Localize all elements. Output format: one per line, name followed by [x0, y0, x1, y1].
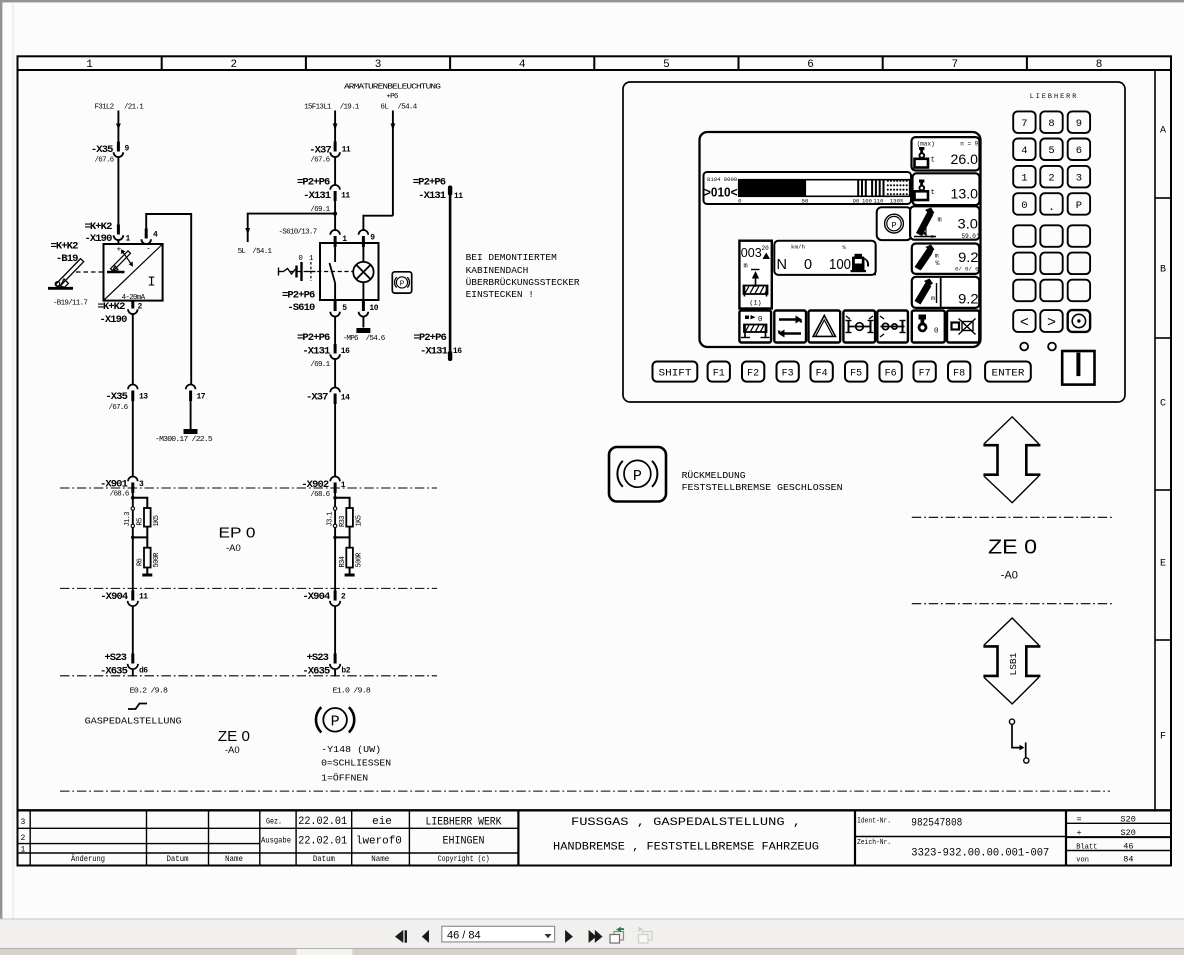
socket arc -X901:3 [128, 477, 138, 482]
LED 2 [1048, 343, 1056, 351]
first page button icon [395, 930, 407, 943]
blank key r5c1 [1013, 225, 1035, 247]
svg-text:-A0: -A0 [225, 745, 240, 756]
col line rev numbers [29, 810, 31, 865]
socket arc -X37:14 [330, 387, 340, 392]
jumper bottom pin blob [448, 351, 452, 361]
svg-text:1: 1 [341, 481, 346, 490]
hoist up icon [744, 271, 768, 297]
svg-text:Ident-Nr.: Ident-Nr. [857, 818, 891, 826]
parking brake valve symbol -Y148 [316, 707, 354, 732]
svg-text:A: A [1160, 126, 1166, 137]
LED 1 [1020, 343, 1028, 351]
pin numbers chain2 [341, 145, 463, 675]
svg-text:16: 16 [341, 347, 350, 356]
svg-text:=P2+P6: =P2+P6 [297, 177, 330, 189]
svg-text:-M300.17 /22.5: -M300.17 /22.5 [155, 436, 213, 444]
svg-text:F8: F8 [953, 368, 965, 379]
svg-text:EP 0: EP 0 [219, 525, 256, 542]
pin bar -X635:d6 [131, 654, 134, 664]
page number input box [442, 926, 555, 942]
svg-text:5L: 5L [238, 248, 247, 256]
fuel pump icon [851, 254, 870, 272]
col line gez/datum2 [295, 810, 297, 865]
column tick 3/4 [449, 56, 451, 70]
wire -X635:d6 tail [132, 670, 134, 677]
svg-text:Name: Name [371, 855, 389, 864]
ENTER key [985, 362, 1031, 382]
F2 key [742, 362, 764, 382]
svg-text:-X131: -X131 [303, 190, 331, 202]
taskbar strip right [352, 948, 1184, 955]
svg-text:Datum: Datum [313, 855, 335, 864]
svg-text:ARMATURENBELEUCHTUNG: ARMATURENBELEUCHTUNG [344, 84, 442, 92]
key 3 [1068, 166, 1090, 188]
svg-text:J3.1: J3.1 [327, 512, 335, 527]
junction circle J3.1 top [333, 507, 336, 510]
row letters [1160, 126, 1166, 743]
svg-text:%: % [842, 244, 846, 251]
resistor R6 500R [144, 548, 151, 568]
svg-text:+P6: +P6 [386, 93, 399, 101]
svg-text:F5: F5 [850, 368, 862, 379]
svg-text:3: 3 [375, 59, 382, 71]
svg-text:=P2+P6: =P2+P6 [413, 177, 446, 189]
ident row line [855, 836, 1066, 838]
svg-text:%: % [936, 260, 940, 267]
value box 2: load 13.0 t [913, 173, 980, 205]
svg-text:1: 1 [342, 235, 347, 244]
resistor R5 to mid wire [146, 527, 148, 538]
wire pin17 to ground [190, 401, 192, 429]
svg-text:0: 0 [758, 316, 763, 324]
svg-text:-X902: -X902 [301, 479, 329, 491]
gauge scale labels [738, 198, 904, 205]
svg-text:(1): (1) [749, 300, 761, 308]
col line datum/name [208, 810, 210, 865]
transducer box B19 [104, 244, 163, 301]
gauge bar outline [739, 180, 910, 197]
svg-text:500R: 500R [153, 552, 161, 568]
svg-text:t: t [931, 157, 936, 165]
window border top [0, 0, 1184, 2]
svg-text:=K+K2: =K+K2 [97, 301, 125, 313]
svg-text:LSB1: LSB1 [1008, 652, 1019, 675]
dash-dot boundary EP0 top [60, 487, 437, 489]
svg-text:=P2+P6: =P2+P6 [282, 290, 315, 302]
svg-text:2: 2 [1048, 173, 1054, 185]
svg-text:3: 3 [21, 818, 26, 827]
col line datum2/name2 [351, 810, 353, 865]
next page button icon [565, 930, 573, 943]
svg-text:1=ÖFFNEN: 1=ÖFFNEN [321, 772, 368, 783]
socket arc -X131:16 [330, 354, 340, 359]
socket arc S610 pin9 [359, 230, 369, 235]
svg-text:<: < [1020, 315, 1029, 332]
svg-text:ÜBERBRÜCKUNGSSTECKER: ÜBERBRÜCKUNGSSTECKER [466, 277, 580, 288]
wire -X37:14 to -X902:1 [334, 404, 336, 477]
pin bar -X35:13 [131, 391, 134, 402]
svg-text:S20: S20 [1121, 828, 1136, 838]
svg-text:982547808: 982547808 [911, 818, 962, 830]
previous page button icon [422, 930, 429, 943]
svg-text:9: 9 [125, 145, 130, 154]
resistor branch top jog chain2 [335, 498, 350, 508]
key 7 [1013, 111, 1035, 132]
svg-text:5: 5 [342, 304, 347, 313]
socket arc -X902:1 [330, 477, 340, 482]
svg-text:11: 11 [454, 192, 463, 201]
svg-text:/68.6: /68.6 [310, 491, 330, 499]
svg-text:1: 1 [86, 59, 93, 71]
key P [1068, 193, 1090, 215]
svg-text:>010<: >010< [704, 184, 738, 199]
svg-text:lwerof0: lwerof0 [356, 835, 402, 847]
svg-text:10: 10 [369, 304, 378, 313]
socket arc S610 pin10 [359, 312, 369, 317]
svg-text:50: 50 [802, 198, 809, 205]
svg-text:-X35: -X35 [105, 391, 127, 403]
svg-text:P: P [1076, 200, 1082, 212]
load bar gauge box [704, 172, 912, 205]
pin bar -X904:11 [131, 591, 134, 601]
svg-text:1: 1 [126, 235, 131, 244]
socket arc -X190:1 [114, 235, 124, 240]
svg-text:2: 2 [21, 834, 26, 843]
svg-text:F2: F2 [747, 368, 759, 379]
blank key r5c3 [1068, 225, 1090, 247]
key 6 [1068, 139, 1090, 161]
svg-text:-S610/13.7: -S610/13.7 [279, 228, 317, 236]
socket arc pin 4 [141, 239, 151, 244]
svg-text:-X190: -X190 [99, 314, 127, 326]
svg-text:GASPEDALSTELLUNG: GASPEDALSTELLUNG [85, 716, 182, 727]
svg-text:-X131: -X131 [418, 190, 446, 202]
lamp cross stroke 1 [356, 265, 370, 279]
ground bar -MP6 [356, 328, 370, 333]
dashed actuator line [290, 271, 353, 273]
select key circle dot [1072, 314, 1085, 327]
svg-text:/19.1: /19.1 [340, 104, 360, 112]
svg-text:d6: d6 [139, 667, 148, 676]
svg-text:0: 0 [1021, 200, 1027, 212]
svg-text:8: 8 [1048, 118, 1054, 130]
svg-text:=P2+P6: =P2+P6 [413, 332, 446, 344]
svg-text:Gez.: Gez. [266, 818, 282, 827]
svg-text:13: 13 [139, 393, 148, 402]
socket arc -X635:d6 [128, 664, 138, 669]
gauge dotted zone [887, 180, 911, 195]
column tick 6/7 [882, 56, 884, 70]
column tick 5/6 [738, 56, 740, 70]
svg-text:F6: F6 [885, 368, 897, 379]
taskbar strip left [0, 948, 297, 955]
svg-text:-MP6: -MP6 [343, 335, 359, 343]
double arrow upper [983, 417, 1040, 503]
display screen bezel [700, 132, 981, 347]
key 0 [1013, 193, 1035, 215]
svg-text:LIEBHERR: LIEBHERR [1030, 93, 1079, 101]
junction dot top chain2 [333, 496, 337, 500]
bei demontiertem note [466, 252, 580, 300]
svg-text:F4: F4 [816, 368, 828, 379]
dash-dot boundary ZE top [912, 516, 1113, 518]
svg-text:KABINENDACH: KABINENDACH [466, 265, 529, 276]
svg-text:F: F [1160, 732, 1166, 743]
pin bar 4 [145, 229, 148, 239]
svg-text:6: 6 [1076, 145, 1082, 157]
svg-text:9: 9 [1076, 118, 1082, 130]
svg-text:.: . [1048, 202, 1054, 214]
svg-text:1K5: 1K5 [153, 515, 161, 526]
pin bar -X635:b2 [334, 654, 337, 664]
F3 key [777, 362, 799, 382]
svg-text:>: > [1047, 315, 1056, 332]
pin bar -X37:11 [334, 142, 337, 152]
counterweight 003 box [739, 241, 771, 309]
svg-text:4: 4 [519, 59, 526, 71]
svg-text:/54.4: /54.4 [398, 104, 418, 112]
branch junction line mid [133, 537, 148, 547]
key 4 [1013, 139, 1035, 161]
hook block icon 1 [915, 147, 929, 168]
parking brake P screen button [877, 207, 912, 240]
dash-dot boundary EP0 bottom [60, 587, 437, 589]
key 5 [1040, 139, 1062, 161]
wire -X901:3 through resistors to -X904:11 [132, 493, 134, 601]
svg-text:=K+K2: =K+K2 [84, 221, 112, 233]
svg-text:46 / 84: 46 / 84 [447, 929, 481, 941]
svg-text:-B19: -B19 [56, 253, 78, 265]
wire pin10 to MP6 ground [362, 317, 364, 328]
dash-dot boundary bottom long [60, 790, 1110, 792]
manual actuator symbol [279, 262, 316, 281]
svg-text:/54.1: /54.1 [252, 248, 272, 256]
resistor branch top jog [133, 498, 148, 508]
svg-text:Copyright (c): Copyright (c) [438, 855, 490, 864]
svg-text:0=SCHLIESSEN: 0=SCHLIESSEN [321, 758, 391, 769]
svg-text:FESTSTELLBREMSE GESCHLOSSEN: FESTSTELLBREMSE GESCHLOSSEN [682, 482, 843, 493]
taskbar strip gap [297, 948, 353, 955]
pedal symbol inside box [107, 249, 133, 272]
panel housing [623, 82, 1125, 402]
pin bar -X131:16 [334, 344, 337, 354]
row tick A/B [1155, 197, 1171, 199]
svg-text:n = 9: n = 9 [960, 140, 978, 147]
svg-text:15F13L1: 15F13L1 [304, 104, 332, 112]
dashed link pedal to box [76, 271, 106, 273]
icon: outrigger state [739, 311, 771, 343]
pin bar S610 pin1 [334, 236, 337, 247]
blank key r7c2 [1040, 280, 1062, 302]
svg-text:-B19/11.7: -B19/11.7 [53, 300, 87, 308]
svg-text:EHINGEN: EHINGEN [443, 835, 485, 847]
svg-text:/69.1: /69.1 [310, 206, 330, 214]
svg-text:P: P [633, 468, 642, 485]
resistor R34 500R [346, 548, 353, 568]
col line aenderung/datum [146, 810, 148, 865]
key 8 [1040, 111, 1062, 132]
svg-text:m: m [744, 263, 748, 271]
svg-text:110: 110 [873, 198, 884, 205]
LSB switch contact symbol [1009, 719, 1029, 763]
pin bar 17 [189, 391, 192, 402]
junction circle J3.1 bottom [333, 524, 336, 527]
key 1 [1013, 166, 1035, 188]
svg-text:11: 11 [139, 592, 148, 601]
svg-text:R33: R33 [339, 516, 347, 527]
svg-text:11: 11 [341, 191, 350, 200]
socket arc pin 17 [186, 385, 196, 390]
pin bar -X37:14 [334, 394, 337, 405]
chain2 labels [238, 84, 442, 696]
resistor branch bottom end chain2 [349, 568, 351, 575]
column tick 1/2 [161, 56, 163, 70]
icon: swap arrows [774, 311, 806, 343]
wire -X35:13 to -X901:3 [132, 401, 134, 477]
svg-text:/21.1: /21.1 [124, 104, 144, 112]
wire -X131:11 to junction [334, 201, 336, 214]
svg-text:R34: R34 [339, 556, 347, 567]
rueckmeldung P-button symbol [609, 447, 666, 502]
key 9 [1068, 111, 1090, 132]
svg-text:SHIFT: SHIFT [659, 368, 692, 379]
icon: warning triangle [809, 311, 841, 343]
F4 key [811, 362, 833, 382]
wire pin5 down to -X131:16 [334, 317, 336, 354]
svg-text:/67.6: /67.6 [94, 157, 114, 165]
svg-text:26.0: 26.0 [951, 152, 979, 167]
resistor R5 1K5 [144, 508, 151, 527]
socket arc -X190:2 [128, 309, 138, 314]
svg-text:/68.6: /68.6 [110, 491, 130, 499]
svg-text:-X37: -X37 [309, 144, 331, 156]
jog 6L to lamp pin9 [363, 216, 393, 231]
Y148 labels [321, 744, 391, 783]
socket arc -X904:11 [128, 601, 138, 606]
wire -X35:9 to -X190:1 [117, 157, 119, 235]
title block top line [18, 809, 1172, 811]
wire 15F13L1 down [334, 111, 336, 152]
svg-text:=: = [1077, 815, 1082, 825]
column numbers [86, 59, 1102, 71]
svg-text:/67.6: /67.6 [108, 404, 128, 412]
svg-text:22.02.01: 22.02.01 [298, 816, 347, 828]
svg-text:-X904: -X904 [100, 591, 128, 603]
svg-text:LIEBHERR WERK: LIEBHERR WERK [426, 817, 502, 829]
hook block icon 2 [915, 180, 929, 201]
resistor R33 1K5 [346, 508, 353, 527]
svg-text:ZE 0: ZE 0 [988, 537, 1037, 559]
svg-text:5: 5 [1048, 145, 1054, 157]
key 2 [1040, 166, 1062, 188]
socket arc -X37:11 [330, 152, 340, 157]
svg-text:8: 8 [1096, 59, 1103, 71]
s20 row line 1 [1066, 822, 1171, 824]
row tick B/C [1155, 337, 1171, 339]
svg-text:0/ 0/ 0: 0/ 0/ 0 [955, 266, 979, 273]
svg-text:13.0: 13.0 [951, 187, 979, 202]
right row-letter column line [1154, 70, 1156, 812]
svg-text:20: 20 [762, 245, 770, 252]
svg-text:59.0°: 59.0° [961, 233, 979, 240]
wire -X902:1 through resistors to -X904:2 [334, 493, 336, 601]
svg-text:4-20mA: 4-20mA [122, 294, 146, 302]
svg-text:F1: F1 [713, 368, 725, 379]
rueckmeldung text [682, 470, 843, 493]
svg-text:P: P [331, 714, 340, 731]
svg-text:-S610: -S610 [287, 302, 315, 314]
junction circle J1.3 top [131, 507, 134, 510]
svg-text:F7: F7 [919, 368, 931, 379]
svg-text:=P2+P6: =P2+P6 [297, 332, 330, 344]
svg-text:6: 6 [807, 59, 814, 71]
svg-text:HANDBREMSE , FESTSTELLBREMSE F: HANDBREMSE , FESTSTELLBREMSE FAHRZEUG [553, 842, 819, 854]
svg-text:46: 46 [1123, 842, 1133, 852]
wire arrow 6L [391, 124, 396, 131]
value box 4: radius 9.2 m [912, 244, 980, 274]
svg-text:Ausgabe: Ausgabe [261, 837, 291, 846]
svg-text:17: 17 [197, 393, 206, 402]
svg-text:6L: 6L [380, 104, 389, 112]
resistor branch bottom end bar [146, 568, 148, 575]
svg-text:m: m [938, 217, 942, 225]
wire junction down to S610 pin1 [334, 214, 336, 231]
svg-text:E0.2 /9.8: E0.2 /9.8 [130, 688, 168, 696]
socket arc -X35:9 [114, 152, 124, 157]
socket arc -X635:b2 [330, 664, 340, 669]
svg-text:4: 4 [1021, 145, 1027, 157]
wire arrow F31L2 [116, 124, 121, 131]
boom icon 5 [915, 279, 937, 305]
blank key r6c1 [1013, 253, 1035, 275]
rotated labels J1.3 R5 1K5 R6 500R [124, 512, 161, 568]
svg-text:Zeich-Nr.: Zeich-Nr. [857, 839, 891, 847]
wire pin4 jog from box to ground lead [146, 214, 191, 385]
svg-text:ZE 0: ZE 0 [218, 728, 250, 745]
svg-text:-X131: -X131 [302, 345, 330, 357]
pin bar -X131:11 [334, 191, 337, 201]
SHIFT key [653, 362, 698, 382]
blank key r7c3 [1068, 280, 1090, 302]
svg-text:130%: 130% [890, 198, 904, 205]
jumper top pin blob [448, 186, 452, 196]
jumper wire right -X131 11 to 16 [449, 190, 452, 354]
s20 row line 2 [1066, 836, 1171, 838]
svg-text:-X904: -X904 [302, 591, 330, 603]
svg-text:-X35: -X35 [91, 144, 113, 156]
svg-text:FUSSGAS , GASPEDALSTELLUNG ,: FUSSGAS , GASPEDALSTELLUNG , [571, 817, 801, 829]
key select [1068, 310, 1090, 332]
svg-text:J1.3: J1.3 [124, 512, 132, 527]
svg-text:Änderung: Änderung [71, 855, 105, 864]
svg-text:7: 7 [951, 59, 958, 71]
svg-text:t: t [931, 189, 936, 197]
wire arrow 15F13L1 [333, 124, 338, 131]
icon: axle steering [877, 311, 908, 343]
value box 3: boom length 3.0 m [910, 206, 979, 240]
boom angle icon [914, 208, 936, 239]
column tick 7/8 [1026, 56, 1028, 70]
svg-text:=K+K2: =K+K2 [50, 241, 78, 253]
svg-text:-X901: -X901 [100, 479, 128, 491]
svg-text:RÜCKMELDUNG: RÜCKMELDUNG [682, 470, 746, 481]
svg-text:km/h: km/h [791, 244, 805, 251]
forward view icon disabled [639, 927, 653, 944]
pin bar -X35:9 [117, 142, 120, 152]
key left [1013, 310, 1035, 332]
F7 key [914, 362, 936, 382]
